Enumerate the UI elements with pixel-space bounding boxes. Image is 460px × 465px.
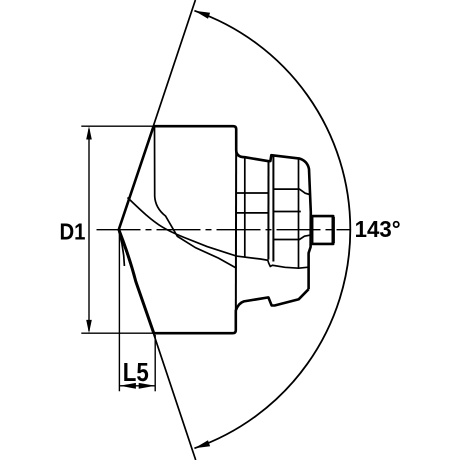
- pin root face line: [312, 216, 314, 244]
- L5 arrow right: [139, 383, 156, 389]
- rear collar tangent line: [298, 160, 300, 269]
- flute gash curve B: [155, 127, 237, 268]
- svg-text:L5: L5: [123, 359, 149, 387]
- angle extension line lower: [119, 230, 196, 461]
- dimension D1 line: [88, 129, 90, 331]
- arc arrowhead top: [194, 11, 210, 19]
- lower cutting edge: [119, 230, 154, 334]
- pin end face line: [332, 217, 335, 243]
- upper cutting edge: [119, 126, 154, 229]
- D1 arrow top: [86, 126, 92, 139]
- angle dimension arc 143 deg: [194, 11, 350, 449]
- lower flank gash line: [119, 232, 125, 267]
- lower right profile: [154, 289, 309, 333]
- neck shoulder face line: [235, 129, 237, 331]
- angle extension line upper: [119, 0, 196, 230]
- dimension L5 extension line left: [118, 235, 120, 392]
- arc arrowhead bottom: [194, 440, 210, 448]
- svg-text:D1: D1: [60, 219, 86, 245]
- flute gash curve A: [128, 198, 309, 269]
- L5 arrow left: [119, 383, 135, 389]
- groove vertical front: [267, 161, 269, 259]
- centerline: [97, 229, 350, 231]
- dimension D1 extension line bottom: [81, 332, 153, 334]
- D1 arrow bottom: [86, 320, 92, 333]
- front collar horizontal lines: [236, 193, 268, 213]
- svg-text:143°: 143°: [355, 216, 401, 242]
- pin outline: [310, 216, 333, 244]
- rear collar horizontal lines: [273, 189, 309, 239]
- dimension D1 extension line top: [81, 125, 153, 127]
- groove vertical rear: [272, 155, 274, 261]
- dimension L5 line: [119, 385, 155, 387]
- front collar tangent line: [244, 158, 246, 257]
- dimension L5 extension line right: [154, 335, 156, 392]
- top edge of body: [154, 126, 311, 289]
- insert body outline: [119, 126, 333, 333]
